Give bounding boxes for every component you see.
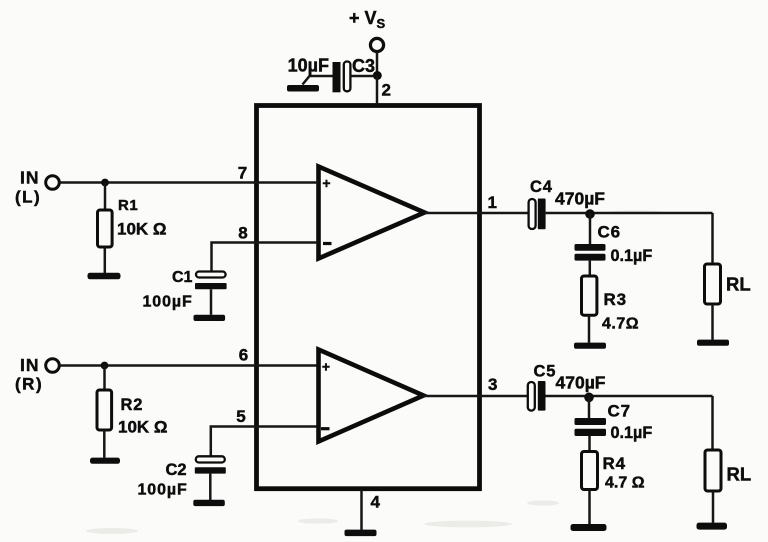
wire R4 to ground bbox=[588, 490, 591, 525]
svg-text:4.7 Ω: 4.7 Ω bbox=[605, 475, 645, 492]
svg-text:C2: C2 bbox=[166, 461, 187, 479]
op-amp U1B bbox=[319, 350, 424, 442]
wire RL to ground bbox=[711, 304, 714, 340]
ground (C1) bbox=[194, 315, 226, 321]
svg-text:470µF: 470µF bbox=[555, 189, 605, 209]
wire junction to C6 bbox=[589, 213, 592, 244]
wire RL to ground bbox=[712, 491, 715, 523]
wire pin 5 to op-amp - input bbox=[211, 427, 319, 457]
wire C3 to ground bbox=[303, 76, 333, 85]
wire R2 to ground bbox=[103, 430, 106, 458]
capacitor C7 bbox=[575, 418, 607, 425]
capacitor C2 bbox=[196, 456, 225, 462]
ground (R4) bbox=[571, 524, 607, 531]
svg-text:+: + bbox=[322, 359, 330, 375]
junction output L node bbox=[585, 209, 595, 219]
svg-text:RL: RL bbox=[727, 464, 752, 485]
svg-text:2: 2 bbox=[382, 81, 391, 100]
svg-text:R3: R3 bbox=[604, 290, 627, 309]
svg-text:0.1µF: 0.1µF bbox=[611, 247, 653, 265]
resistor R2 bbox=[97, 390, 112, 430]
junction node L input bbox=[101, 179, 109, 187]
svg-text:RL: RL bbox=[726, 274, 751, 295]
wire C4 to RL (L) bbox=[546, 212, 713, 215]
ground (R1) bbox=[88, 273, 121, 280]
svg-text:IN: IN bbox=[20, 168, 40, 188]
ground (C3) bbox=[287, 85, 319, 92]
svg-text:C7: C7 bbox=[608, 402, 631, 421]
capacitor C6 bbox=[575, 244, 606, 251]
svg-text:(L): (L) bbox=[15, 188, 41, 207]
svg-text:R2: R2 bbox=[121, 396, 144, 414]
svg-text:100µF: 100µF bbox=[138, 482, 188, 499]
resistor RL (L) bbox=[705, 264, 721, 304]
svg-text:C3: C3 bbox=[352, 56, 375, 76]
svg-text:4.7Ω: 4.7Ω bbox=[602, 316, 639, 333]
resistor R1 bbox=[98, 210, 113, 247]
svg-text:10K Ω: 10K Ω bbox=[118, 418, 168, 437]
ground (pin 4) bbox=[345, 530, 377, 537]
resistor R4 bbox=[582, 452, 598, 490]
ground (C2) bbox=[193, 500, 225, 506]
svg-text:4: 4 bbox=[371, 493, 381, 512]
ground (R2) bbox=[90, 458, 120, 464]
junction supply node bbox=[373, 71, 382, 80]
svg-text:7: 7 bbox=[238, 164, 247, 183]
svg-text:C5: C5 bbox=[534, 363, 557, 381]
svg-text:R4: R4 bbox=[603, 454, 626, 473]
svg-text:5: 5 bbox=[236, 407, 245, 426]
wire C5 to RL (R) bbox=[546, 395, 713, 398]
op-amp U1A - input mark bbox=[323, 242, 332, 245]
capacitor C4 bbox=[529, 199, 536, 229]
wire +Vs terminal to junction bbox=[376, 52, 379, 76]
junction output R node bbox=[584, 393, 594, 403]
svg-text:8: 8 bbox=[238, 224, 247, 243]
wire junction to R2 bbox=[103, 366, 106, 391]
op-amp U1B - input mark bbox=[321, 427, 330, 430]
ground (RL L) bbox=[697, 340, 729, 346]
wire output R to RL bbox=[711, 396, 714, 450]
input terminal IN L bbox=[46, 176, 60, 190]
input terminal IN R bbox=[46, 359, 60, 373]
svg-text:+: + bbox=[322, 175, 330, 191]
wire C6 to R3 bbox=[589, 261, 592, 276]
svg-text:0.1µF: 0.1µF bbox=[611, 424, 653, 442]
wire IN L to pin 7 / op-amp + bbox=[60, 181, 319, 184]
capacitor C5 bbox=[528, 382, 535, 411]
resistor RL (R) bbox=[705, 450, 721, 491]
svg-text:6: 6 bbox=[239, 346, 248, 365]
svg-text:C1: C1 bbox=[172, 269, 193, 286]
wire C2 to ground bbox=[209, 474, 212, 500]
svg-text:+ VS: + VS bbox=[349, 8, 386, 31]
wire R1 to ground bbox=[104, 247, 107, 273]
+Vs supply terminal bbox=[370, 38, 383, 51]
op-amp U1A bbox=[319, 167, 425, 259]
wire junction to R1 bbox=[104, 183, 107, 211]
wire junction to C7 bbox=[588, 396, 591, 418]
svg-text:C6: C6 bbox=[598, 223, 621, 242]
IC U1 body bbox=[257, 106, 480, 489]
svg-text:10µF: 10µF bbox=[288, 56, 329, 76]
wire IN R to pin 6 / op-amp + bbox=[60, 364, 319, 367]
svg-text:100µF: 100µF bbox=[143, 294, 193, 311]
svg-text:IN: IN bbox=[20, 355, 40, 375]
wire C1 to ground bbox=[210, 289, 213, 315]
ground (R3) bbox=[574, 343, 606, 349]
ground (RL R) bbox=[697, 523, 728, 530]
wire op-amp U1B output to C5 bbox=[424, 395, 528, 398]
wire pin 8 to op-amp - input bbox=[212, 243, 319, 273]
wire C7 to R4 bbox=[588, 436, 591, 452]
wire C3 to supply junction bbox=[351, 75, 375, 78]
capacitor C3 bbox=[333, 62, 341, 92]
svg-text:470µF: 470µF bbox=[556, 373, 606, 393]
capacitor C1 bbox=[196, 272, 226, 278]
svg-text:C4: C4 bbox=[530, 178, 553, 196]
junction node R input bbox=[101, 362, 109, 370]
wire op-amp U1A output to C4 bbox=[425, 212, 529, 215]
wire output L to RL bbox=[711, 213, 714, 264]
resistor R3 bbox=[582, 276, 597, 315]
svg-text:R1: R1 bbox=[118, 197, 138, 214]
wire pin 4 to ground bbox=[360, 490, 363, 530]
svg-text:10K Ω: 10K Ω bbox=[117, 220, 167, 239]
wire junction to pin 2 bbox=[376, 76, 379, 105]
svg-text:(R): (R) bbox=[15, 375, 43, 394]
svg-text:3: 3 bbox=[488, 375, 497, 394]
svg-text:1: 1 bbox=[488, 193, 497, 212]
wire R3 to ground bbox=[588, 315, 591, 343]
